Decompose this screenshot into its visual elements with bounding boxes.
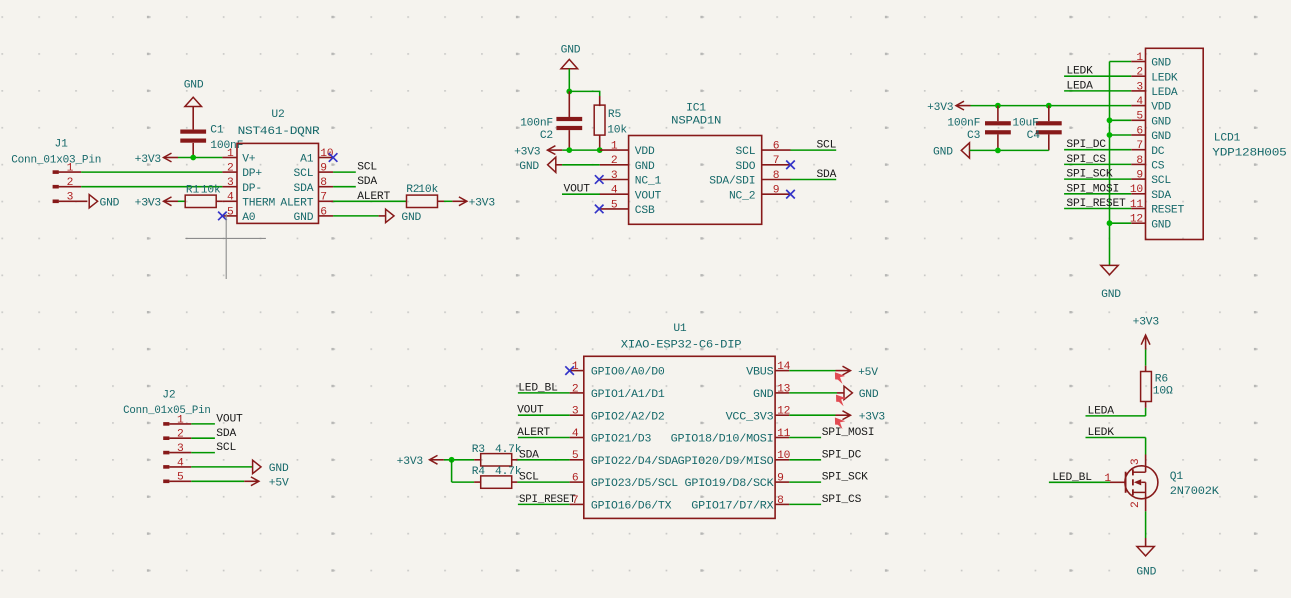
+3V3 lead at LCD1 VDD bbox=[956, 105, 971, 107]
svg-text:Conn_01x05_Pin: Conn_01x05_Pin bbox=[123, 405, 211, 417]
R5 bottom lead bbox=[599, 135, 601, 150]
wire SPI_SCK to LCD1.9 bbox=[1064, 178, 1131, 180]
LCD1 pin 9 bbox=[1131, 178, 1145, 180]
J2 pin 2 bbox=[169, 437, 191, 439]
svg-text:LEDA: LEDA bbox=[1088, 405, 1115, 417]
svg-text:VDD: VDD bbox=[635, 146, 655, 158]
svg-text:GND: GND bbox=[753, 389, 774, 401]
LCD1 pin 1 bbox=[1131, 61, 1145, 63]
svg-text:+5V: +5V bbox=[858, 367, 878, 379]
svg-text:GPIO18/D10/MOSI: GPIO18/D10/MOSI bbox=[671, 434, 774, 446]
svg-text:CSB: CSB bbox=[635, 205, 655, 217]
wire junction to R5 column bbox=[569, 90, 599, 92]
+3V3 lead right of R2 bbox=[452, 200, 467, 202]
svg-text:U1: U1 bbox=[673, 323, 687, 335]
junction bus pin5 bbox=[1107, 117, 1113, 123]
svg-text:C1: C1 bbox=[210, 125, 224, 137]
+3V3 symbol at U2 pin 1 bbox=[164, 153, 172, 162]
svg-text:VOUT: VOUT bbox=[216, 413, 243, 425]
LCD1 pin 11 bbox=[1131, 208, 1145, 210]
svg-text:10k: 10k bbox=[418, 184, 438, 196]
wire junction down to R4 row bbox=[451, 460, 453, 482]
svg-text:GND: GND bbox=[184, 80, 204, 92]
wire VOUT to U1.3 bbox=[518, 414, 570, 416]
module U1 body bbox=[584, 356, 775, 518]
svg-text:9: 9 bbox=[320, 163, 327, 175]
svg-text:2: 2 bbox=[227, 163, 234, 175]
wire +3V3 to R3 bbox=[444, 459, 474, 461]
LCD1 pin 6 bbox=[1131, 134, 1145, 136]
+3V3 lead at R1 bbox=[164, 200, 179, 202]
R3 left lead bbox=[474, 459, 481, 461]
U1 pin 4 bbox=[570, 437, 584, 439]
svg-text:SPI_SCK: SPI_SCK bbox=[1066, 169, 1112, 181]
svg-text:SPI_MOSI: SPI_MOSI bbox=[1066, 183, 1119, 195]
U2 pin 8 bbox=[319, 186, 334, 188]
connector J2 bbox=[163, 422, 169, 483]
IC1 pin 9 bbox=[762, 193, 791, 195]
U1 pin 9 bbox=[775, 481, 789, 483]
wire LCD1.5 to bus bbox=[1110, 119, 1132, 121]
+3V3 lead at U1.12 bbox=[836, 414, 851, 416]
svg-text:3: 3 bbox=[611, 170, 618, 182]
no-connect IC1 pin 5 bbox=[595, 205, 604, 214]
svg-text:11: 11 bbox=[777, 428, 791, 440]
svg-text:XIAO-ESP32-C6-DIP: XIAO-ESP32-C6-DIP bbox=[621, 339, 742, 351]
IC1 pin 3 bbox=[600, 179, 629, 181]
capacitor C4 bbox=[1036, 121, 1062, 134]
svg-text:SCL: SCL bbox=[1151, 175, 1171, 187]
IC1 pin 8 bbox=[762, 179, 791, 181]
svg-text:4: 4 bbox=[611, 185, 618, 197]
svg-text:+5V: +5V bbox=[269, 478, 289, 490]
Q1 drain to channel bbox=[1133, 471, 1146, 473]
+5V symbol at J2 pin 5 bbox=[251, 477, 259, 486]
svg-text:5: 5 bbox=[1136, 111, 1143, 123]
svg-text:GPIO22/D4/SDA: GPIO22/D4/SDA bbox=[591, 456, 679, 468]
junction C1/+3V3 bbox=[190, 155, 196, 161]
svg-text:VOUT: VOUT bbox=[517, 405, 544, 417]
no-connect U2 pin 10 bbox=[329, 153, 338, 162]
svg-text:Q1: Q1 bbox=[1170, 471, 1184, 483]
wire SPI_CS to LCD1.8 bbox=[1064, 163, 1131, 165]
svg-text:RESET: RESET bbox=[1151, 205, 1184, 217]
LCD1 pin 4 bbox=[1131, 105, 1145, 107]
svg-text:6: 6 bbox=[1136, 125, 1143, 137]
svg-text:3: 3 bbox=[67, 192, 74, 204]
U1 pin 5 bbox=[570, 459, 584, 461]
svg-text:SCL: SCL bbox=[736, 146, 756, 158]
svg-text:8: 8 bbox=[777, 495, 784, 507]
svg-text:4: 4 bbox=[177, 457, 184, 469]
svg-text:+3V3: +3V3 bbox=[135, 198, 162, 210]
+3V3 symbol at U1.12 bbox=[843, 411, 851, 420]
svg-text:DC: DC bbox=[1151, 146, 1165, 158]
svg-text:Conn_01x03_Pin: Conn_01x03_Pin bbox=[11, 154, 101, 166]
svg-text:100nF: 100nF bbox=[947, 118, 980, 130]
U2 pin 10 bbox=[319, 157, 334, 159]
wire +3V3 to U2.1 bbox=[178, 157, 222, 159]
svg-text:SPI_DC: SPI_DC bbox=[1066, 139, 1106, 151]
svg-text:GND: GND bbox=[100, 198, 120, 210]
U1 pin 2 bbox=[570, 392, 584, 394]
LCD1 pin 7 bbox=[1131, 149, 1145, 151]
wire R4 to U1.6 bbox=[517, 481, 569, 483]
C4 bottom lead bbox=[1048, 134, 1050, 150]
GND symbol above C1 bbox=[185, 97, 202, 106]
junction bus pin6 bbox=[1107, 132, 1113, 138]
svg-text:SCL: SCL bbox=[216, 442, 236, 454]
GND lead at U1.13 bbox=[837, 392, 844, 394]
svg-text:8: 8 bbox=[1136, 155, 1143, 167]
C3 top lead bbox=[997, 106, 999, 122]
svg-text:DP-: DP- bbox=[242, 183, 262, 195]
svg-text:4: 4 bbox=[572, 428, 579, 440]
wire U1.14 to +5V bbox=[789, 370, 835, 372]
U2 pin 9 bbox=[319, 171, 334, 173]
C1 top lead bbox=[192, 107, 194, 130]
GND symbol at U1.13 bbox=[844, 386, 852, 399]
LCD1 pin 10 bbox=[1131, 193, 1145, 195]
+3V3 lead at R3/R4 bbox=[430, 459, 444, 461]
svg-text:SDA: SDA bbox=[216, 428, 236, 440]
J2 pin 5 bbox=[169, 480, 191, 482]
resistor R2 bbox=[407, 195, 438, 207]
capacitor C2 bbox=[556, 117, 582, 130]
svg-text:U2: U2 bbox=[271, 109, 284, 121]
Q1 body arrow bbox=[1134, 479, 1141, 485]
junction C4 top bbox=[1046, 103, 1052, 109]
svg-text:SPI_DC: SPI_DC bbox=[822, 449, 862, 461]
+3V3 symbol at R3/R4 bbox=[430, 455, 438, 464]
+5V lead at U1.14 bbox=[836, 370, 851, 372]
svg-text:7: 7 bbox=[773, 155, 780, 167]
U1 pin 6 bbox=[570, 481, 584, 483]
C1 bottom lead bbox=[192, 143, 194, 158]
junction above C2 bbox=[566, 89, 572, 95]
wire R3 to U1.5 bbox=[517, 459, 569, 461]
Q1 channel top segment bbox=[1132, 469, 1134, 475]
wire U2.8 SDA bbox=[333, 186, 356, 188]
wire SPI_RESET to U1.7 bbox=[518, 503, 570, 505]
+3V3 symbol at LCD1 VDD bbox=[956, 101, 964, 110]
R2 right lead bbox=[438, 200, 445, 202]
C2 bottom lead bbox=[568, 130, 570, 150]
svg-text:5: 5 bbox=[611, 199, 618, 211]
svg-text:C4: C4 bbox=[1027, 130, 1041, 142]
wire LED_BL to U1.2 bbox=[518, 392, 570, 394]
svg-text:LEDK: LEDK bbox=[1151, 72, 1178, 84]
wire J2.1 VOUT bbox=[191, 423, 215, 425]
svg-text:+3V3: +3V3 bbox=[135, 154, 162, 166]
wire LEDA to LCD1.3 bbox=[1064, 90, 1131, 92]
svg-text:GND: GND bbox=[561, 44, 581, 56]
svg-text:THERM: THERM bbox=[242, 197, 275, 209]
svg-text:9: 9 bbox=[773, 185, 780, 197]
wire U1.10 SPI_DC bbox=[789, 459, 821, 461]
svg-text:SCL: SCL bbox=[294, 168, 314, 180]
GND symbol at U2 pin 6 bbox=[386, 209, 394, 222]
junction R3/R4 bbox=[449, 457, 455, 463]
svg-text:LED_BL: LED_BL bbox=[1052, 472, 1092, 484]
resistor R3 bbox=[481, 454, 512, 466]
LCD1 pin 5 bbox=[1131, 119, 1145, 121]
svg-text:2N7002K: 2N7002K bbox=[1170, 486, 1219, 498]
svg-text:GND: GND bbox=[859, 389, 879, 401]
svg-text:100nF: 100nF bbox=[520, 118, 553, 130]
svg-text:NST461-DQNR: NST461-DQNR bbox=[238, 126, 320, 138]
wire LED_BL to Q1 gate bbox=[1049, 481, 1110, 483]
ERC marker at U1.14 bbox=[835, 372, 845, 384]
wire U1.13 to GND bbox=[789, 392, 837, 394]
U1 pin 8 bbox=[775, 503, 789, 505]
U2 pin 2 bbox=[222, 171, 237, 173]
svg-text:10Ω: 10Ω bbox=[1153, 385, 1173, 397]
U1 pin 13 bbox=[775, 392, 789, 394]
wire R6 to LEDA corner bbox=[1145, 408, 1147, 416]
J2 pin 4 bbox=[169, 466, 191, 468]
svg-text:GPIO17/D7/RX: GPIO17/D7/RX bbox=[691, 501, 774, 513]
IC1 pin 1 bbox=[600, 149, 629, 151]
U2 pin 7 bbox=[319, 200, 334, 202]
svg-text:3: 3 bbox=[572, 406, 579, 418]
svg-text:VBUS: VBUS bbox=[746, 367, 774, 379]
svg-text:4: 4 bbox=[227, 192, 234, 204]
U1 pin 1 bbox=[570, 370, 584, 372]
wire LEDK to LCD1.2 bbox=[1064, 75, 1131, 77]
svg-text:SDA/SDI: SDA/SDI bbox=[709, 176, 755, 188]
svg-text:GND: GND bbox=[269, 463, 289, 475]
ERC marker at U1.13 bbox=[836, 395, 846, 407]
svg-text:+3V3: +3V3 bbox=[397, 456, 424, 468]
wire GND to junction bbox=[568, 69, 570, 92]
svg-text:1: 1 bbox=[1136, 52, 1143, 64]
svg-text:R6: R6 bbox=[1155, 374, 1169, 386]
svg-text:CS: CS bbox=[1151, 161, 1165, 173]
GND lead below Q1 bbox=[1145, 538, 1147, 547]
svg-text:5: 5 bbox=[572, 450, 579, 462]
svg-text:NSPAD1N: NSPAD1N bbox=[671, 116, 721, 128]
wire LCD1 GND bus vertical bbox=[1109, 62, 1111, 266]
svg-text:GPIO16/D6/TX: GPIO16/D6/TX bbox=[591, 501, 672, 513]
svg-text:J1: J1 bbox=[55, 139, 69, 151]
svg-text:3: 3 bbox=[177, 443, 184, 455]
C4 top lead bbox=[1048, 106, 1050, 122]
U1 pin 7 bbox=[570, 503, 584, 505]
wire SPI_DC to LCD1.7 bbox=[1064, 149, 1131, 151]
Q1 drain pin 3 bbox=[1145, 455, 1147, 471]
U2 pin 6 bbox=[319, 215, 334, 217]
svg-text:GND: GND bbox=[1151, 219, 1171, 231]
no-connect U1 pin 1 bbox=[565, 366, 574, 375]
IC1 pin 5 bbox=[600, 208, 629, 210]
wire +3V3 to R1 bbox=[178, 200, 185, 202]
svg-text:SCL: SCL bbox=[816, 140, 836, 152]
wire LEDK horizontal bbox=[1086, 437, 1146, 439]
svg-text:1: 1 bbox=[1104, 473, 1111, 485]
svg-text:LED_BL: LED_BL bbox=[518, 382, 558, 394]
Q1 drain internal bbox=[1145, 470, 1147, 472]
wire U1.12 to +3V3 bbox=[789, 414, 835, 416]
junction R5 bottom at IC1 pin 1 bbox=[597, 147, 603, 153]
Q1 channel middle segment bbox=[1132, 479, 1134, 485]
IC1 pin 6 bbox=[762, 149, 791, 151]
svg-text:LEDA: LEDA bbox=[1151, 87, 1178, 99]
svg-text:GPIO20/D9/MISO: GPIO20/D9/MISO bbox=[678, 456, 774, 468]
R3 right lead bbox=[511, 459, 517, 461]
+5V symbol at U1.14 bbox=[843, 366, 851, 375]
+3V3 symbol at IC1 pin 1 bbox=[547, 146, 555, 155]
svg-text:SPI_CS: SPI_CS bbox=[1066, 154, 1106, 166]
svg-text:GPIO23/D5/SCL: GPIO23/D5/SCL bbox=[591, 478, 679, 490]
GND symbol at IC1 pin 2 bbox=[548, 157, 556, 172]
svg-text:14: 14 bbox=[777, 361, 791, 373]
LCD1 pin 8 bbox=[1131, 163, 1145, 165]
IC IC1 body bbox=[629, 136, 762, 225]
resistor R4 bbox=[481, 476, 512, 488]
Q1 gate pin 1 bbox=[1110, 481, 1126, 483]
svg-text:C2: C2 bbox=[540, 130, 553, 142]
svg-text:J2: J2 bbox=[162, 390, 175, 402]
IC1 pin 7 bbox=[762, 164, 791, 166]
GND lead at U2 pin 6 bbox=[379, 215, 386, 217]
svg-text:SPI_RESET: SPI_RESET bbox=[1066, 198, 1126, 210]
svg-text:LEDA: LEDA bbox=[1066, 80, 1093, 92]
LCD1 body bbox=[1146, 48, 1204, 239]
wire +3V3 to R6 bbox=[1145, 350, 1147, 366]
resistor R1 bbox=[185, 195, 216, 207]
GND symbol below LCD1 bbox=[1101, 265, 1118, 274]
svg-text:LEDK: LEDK bbox=[1088, 427, 1115, 439]
wire LEDA bbox=[1086, 415, 1146, 417]
no-connect IC1 pin 7 bbox=[786, 161, 795, 170]
+5V lead at J2 pin 5 bbox=[244, 480, 259, 482]
svg-text:GND: GND bbox=[1151, 131, 1171, 143]
svg-text:1: 1 bbox=[177, 414, 184, 426]
connector J1 bbox=[53, 170, 59, 203]
svg-text:GND: GND bbox=[294, 212, 314, 224]
wire U1.11 SPI_MOSI bbox=[789, 437, 821, 439]
svg-text:1: 1 bbox=[611, 141, 618, 153]
LCD1 pin 2 bbox=[1131, 75, 1145, 77]
GND symbol at C3/C4 bbox=[961, 143, 969, 158]
wire U2.9 SCL bbox=[333, 171, 356, 173]
svg-text:SCL: SCL bbox=[519, 472, 539, 484]
wire R2 to +3V3 bbox=[444, 200, 452, 202]
transistor Q1 body circle bbox=[1125, 466, 1158, 499]
IC1 pin 2 bbox=[600, 164, 629, 166]
svg-text:GND: GND bbox=[1151, 116, 1171, 128]
capacitor C3 bbox=[985, 121, 1011, 134]
Q1 source internal bbox=[1133, 491, 1146, 493]
svg-text:12: 12 bbox=[777, 406, 790, 418]
svg-text:SDA: SDA bbox=[519, 449, 539, 461]
wire U1.9 SPI_SCK bbox=[789, 481, 821, 483]
+3V3 lead above R6 bbox=[1145, 335, 1147, 350]
U1 pin 10 bbox=[775, 459, 789, 461]
ERC marker at U1.12 bbox=[835, 418, 845, 430]
svg-text:9: 9 bbox=[777, 473, 784, 485]
U1 pin 11 bbox=[775, 437, 789, 439]
GND symbol below Q1 bbox=[1137, 547, 1154, 556]
svg-text:LEDK: LEDK bbox=[1066, 66, 1093, 78]
svg-text:VCC_3V3: VCC_3V3 bbox=[726, 411, 774, 423]
svg-text:ALERT: ALERT bbox=[280, 197, 313, 209]
svg-text:VDD: VDD bbox=[1151, 102, 1171, 114]
+3V3 lead at U2 pin 1 bbox=[164, 157, 179, 159]
svg-text:+3V3: +3V3 bbox=[514, 146, 541, 158]
svg-text:YDP128H005: YDP128H005 bbox=[1212, 148, 1287, 160]
svg-text:IC1: IC1 bbox=[686, 103, 706, 115]
wire IC1.8 SDA bbox=[791, 179, 837, 181]
U2 pin 4 bbox=[222, 200, 237, 202]
svg-text:7: 7 bbox=[320, 192, 327, 204]
svg-text:1: 1 bbox=[227, 148, 234, 160]
svg-text:3: 3 bbox=[1136, 81, 1143, 93]
svg-text:NC_2: NC_2 bbox=[729, 190, 755, 202]
junction bus pin12 bbox=[1107, 220, 1113, 226]
wire J2.4 GND bbox=[191, 466, 252, 468]
svg-text:1: 1 bbox=[67, 163, 74, 175]
svg-text:6: 6 bbox=[572, 473, 579, 485]
GND symbol at J2 pin 4 bbox=[253, 460, 261, 473]
Q1 body connection bbox=[1141, 481, 1145, 483]
svg-text:GND: GND bbox=[635, 161, 655, 173]
svg-text:2: 2 bbox=[611, 155, 618, 167]
wire +3V3 to IC1.1 bbox=[562, 149, 599, 151]
svg-text:GND: GND bbox=[933, 147, 953, 159]
svg-text:10uF: 10uF bbox=[1012, 118, 1038, 130]
svg-text:11: 11 bbox=[1130, 199, 1144, 211]
Q1 channel bottom segment bbox=[1132, 489, 1134, 495]
R4 left lead bbox=[474, 481, 481, 483]
junction C3 bottom bbox=[995, 148, 1001, 154]
svg-text:DP+: DP+ bbox=[242, 168, 262, 180]
svg-text:5: 5 bbox=[227, 206, 234, 218]
op-amp U2 body bbox=[237, 143, 319, 223]
svg-text:2: 2 bbox=[1136, 67, 1143, 79]
wire LCD1.6 to bus bbox=[1110, 134, 1132, 136]
svg-text:GPIO21/D3: GPIO21/D3 bbox=[591, 434, 652, 446]
U1 pin 14 bbox=[775, 370, 789, 372]
wire LEDK down to Q1 drain bbox=[1145, 438, 1147, 455]
svg-text:R5: R5 bbox=[608, 109, 622, 121]
svg-text:C3: C3 bbox=[967, 130, 981, 142]
resistor R5 bbox=[594, 105, 605, 135]
svg-text:GND: GND bbox=[519, 161, 539, 173]
svg-text:10k: 10k bbox=[607, 125, 627, 137]
U1 pin 3 bbox=[570, 414, 584, 416]
wire LCD1.12 to bus bbox=[1110, 222, 1132, 224]
svg-text:3: 3 bbox=[1130, 458, 1142, 465]
U2 pin 5 bbox=[222, 215, 237, 217]
svg-text:4: 4 bbox=[1136, 96, 1143, 108]
svg-text:LCD1: LCD1 bbox=[1214, 132, 1241, 144]
svg-text:7: 7 bbox=[1136, 140, 1143, 152]
R6 top lead bbox=[1145, 366, 1147, 372]
svg-text:SCL: SCL bbox=[357, 162, 377, 174]
wire +3V3 to LCD1.4 bbox=[971, 105, 1132, 107]
gray crosshair marker bbox=[185, 214, 266, 279]
IC1 pin 4 bbox=[600, 193, 629, 195]
wire SPI_RESET to LCD1.11 bbox=[1064, 208, 1131, 210]
svg-text:+3V3: +3V3 bbox=[469, 198, 496, 210]
svg-text:A1: A1 bbox=[300, 154, 314, 166]
svg-text:3: 3 bbox=[227, 177, 234, 189]
svg-text:V+: V+ bbox=[242, 154, 256, 166]
LCD1 pin 3 bbox=[1131, 90, 1145, 92]
R6 bottom lead bbox=[1145, 402, 1147, 408]
